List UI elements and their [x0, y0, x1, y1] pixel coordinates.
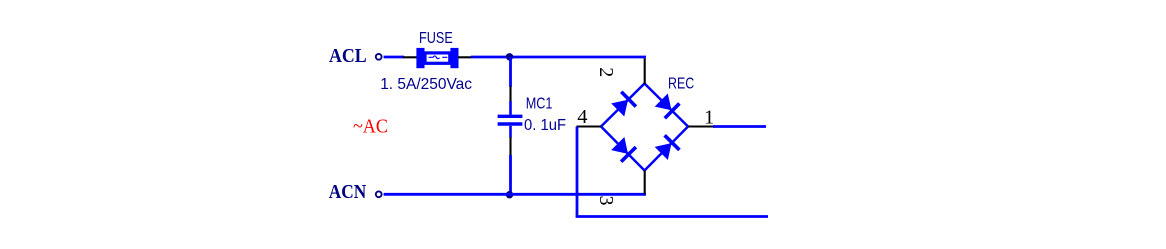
wire: [471, 56, 646, 59]
bridge rectifier REC: [601, 84, 688, 171]
svg-text:REC: REC: [668, 76, 694, 93]
svg-text:MC1: MC1: [526, 96, 553, 113]
fuse F1 pin 1: [403, 56, 417, 58]
svg-text:2: 2: [595, 67, 617, 77]
terminal ACL: [376, 54, 382, 60]
wire: [576, 215, 768, 218]
wire: [713, 125, 766, 128]
svg-text:1. 5A/250Vac: 1. 5A/250Vac: [380, 76, 472, 93]
terminal ACN: [376, 191, 382, 197]
svg-text:ACN: ACN: [329, 181, 367, 203]
pin 4: [577, 125, 602, 127]
wire: [384, 56, 404, 59]
capacitor MC1: [498, 86, 523, 155]
svg-text:FUSE: FUSE: [419, 30, 453, 47]
pin 2: [644, 58, 646, 84]
diode D3 (left-bottom edge): [610, 136, 636, 162]
svg-text:3: 3: [595, 196, 617, 206]
wire: [509, 57, 512, 87]
wire: [576, 127, 579, 217]
wire: [384, 193, 646, 196]
junction: [506, 53, 513, 60]
bridge body: [601, 84, 688, 171]
diode D4 (bottom-right edge): [654, 135, 680, 161]
svg-text:0. 1uF: 0. 1uF: [524, 117, 566, 134]
svg-text:ACL: ACL: [329, 45, 367, 67]
junction: [506, 191, 513, 198]
diode D1 (left-top edge): [610, 92, 636, 118]
svg-text:4: 4: [577, 106, 587, 128]
pin 1: [688, 125, 713, 127]
fuse FUSE: [416, 48, 458, 68]
fuse F1 pin 2: [458, 56, 472, 58]
pin 3: [644, 171, 646, 195]
svg-text:~AC: ~AC: [353, 116, 388, 137]
wire: [509, 155, 512, 195]
svg-text:1: 1: [704, 106, 714, 128]
diode D2 (top-right edge): [654, 93, 680, 119]
